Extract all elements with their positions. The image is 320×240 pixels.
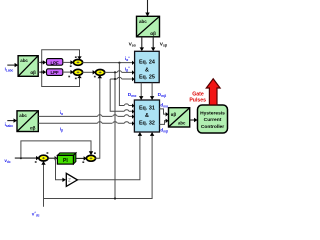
label i_sabc: [5, 122, 14, 128]
wire: E2 bottom in1 from triangle gain, corner at (139.9,179.5): [77, 132, 142, 180]
sum junction S2: [68, 69, 82, 79]
wire: S5 out up to S3 bottom (DC control current): [95, 75, 102, 159]
svg-text:abc: abc: [139, 19, 147, 24]
wire: branch to E1 in3, hop over x=119.4: [110, 77, 134, 81]
label i_salpha: [60, 110, 63, 116]
wire: T2 out2 to LPF2: [38, 70, 46, 74]
label i_Labc: [5, 67, 14, 73]
transform block T5 alphabeta->abc (right): [169, 108, 190, 127]
wire: LPF1 out to sum S1: [63, 60, 74, 64]
svg-text:Hysteresis: Hysteresis: [200, 111, 225, 117]
transform block T2 abc->alphabeta (left upper): [18, 56, 38, 77]
svg-text:Pulses: Pulses: [189, 98, 206, 104]
wire: vertical from wire B down to v*dc line: [114, 72, 116, 198]
feedback box around LPFs (direct path loop): [41, 50, 82, 87]
svg-text:PI: PI: [63, 158, 68, 164]
triangle gain block (1/vdc): [66, 173, 77, 186]
wire: T2 out1 to LPF1: [38, 60, 46, 64]
block E1 Eq.24 & Eq.25: [135, 51, 160, 82]
wire: E1 bottom out1 to E2 top in1 (D_malpha): [139, 83, 143, 100]
label Gate Pulses: [189, 92, 206, 104]
gate pulses red arrow: [206, 79, 220, 105]
svg-text:LPF: LPF: [50, 70, 59, 75]
wire: LPF2 out to sum S2: [63, 70, 74, 74]
label i_beta* (reference current beta): [125, 66, 130, 72]
wire A: S1 out to E1 in1, with junction: [82, 61, 134, 65]
wire: T5 to hysteresis controller: [190, 118, 198, 122]
label i_alpha* (reference current alpha): [125, 56, 130, 62]
label i_sbeta: [60, 127, 63, 133]
wire: E2 out1 to T5 in1 (d_malpha): [160, 109, 169, 117]
label V_sbeta: [160, 41, 167, 47]
hysteresis current controller block: [198, 105, 228, 133]
wire: E2 bottom in2 from v*dc line, corner at (152.1,198.5): [44, 132, 155, 200]
transform block T1 abc->alphabeta (top): [137, 16, 160, 37]
label v_dc: [4, 158, 11, 164]
svg-text:abc: abc: [178, 121, 186, 126]
wire B: S3 out to E1 in2, hop over x=119.4, junction at x=115: [104, 70, 134, 74]
wire: v*dc up into sum S4 bottom: [41, 161, 45, 207]
svg-text:abc: abc: [19, 113, 27, 118]
label v*_dc: [32, 211, 40, 218]
wire: E2 out2 to T5 in2 (d_mbeta): [160, 119, 169, 125]
label V_salpha: [129, 41, 137, 47]
sum junction S1: [70, 56, 83, 67]
label d_mbeta: [160, 128, 168, 134]
wire: input i_sabc to T4: [7, 118, 17, 122]
wire: PI out to sum S5: [76, 156, 87, 160]
wire row3: T4 out1 to E2 in3 with hops: [38, 114, 134, 118]
wire: input to T1 from top: [145, 0, 149, 17]
svg-text:Current: Current: [204, 117, 222, 123]
transform block T4 abc->alphabeta (left lower): [17, 111, 38, 132]
sum junction S3: [94, 70, 105, 78]
svg-text:&: &: [145, 68, 149, 74]
LPF block L2: [47, 69, 63, 76]
sum junction S4: [35, 152, 49, 163]
LPF block L1: [47, 59, 63, 66]
svg-text:Eq. 31: Eq. 31: [139, 105, 155, 111]
wire: vertical x=110.2 down to E2 in2: [110, 79, 134, 114]
wire: T1 out1 to E1 (V_s alpha): [140, 37, 144, 52]
label D_malpha: [128, 92, 137, 98]
svg-text:αβ: αβ: [30, 125, 36, 130]
wire: S4 out to PI with junction for gain tap: [48, 156, 58, 160]
label d_malpha: [160, 102, 168, 108]
wire: E1 bottom out2 to E2 top in2 (D_mbeta): [150, 83, 154, 100]
svg-text:Eq. 25: Eq. 25: [139, 75, 155, 81]
wire: v_dc feedforward up-over to sum S5 top: [21, 141, 93, 158]
PI block (3D): [57, 153, 76, 164]
wire: S2 out to sum S3: [82, 70, 96, 74]
svg-text:Eq. 24: Eq. 24: [139, 60, 155, 66]
label D_mbeta: [158, 92, 167, 98]
wire: input i_Labc to T2: [7, 63, 18, 67]
wire: vertical from wire A down to E2 in1: [119, 63, 134, 108]
svg-text:abc: abc: [20, 58, 28, 63]
svg-text:LPF: LPF: [50, 60, 59, 65]
svg-text:&: &: [145, 113, 149, 119]
svg-text:Eq. 32: Eq. 32: [139, 121, 155, 127]
svg-text:αβ: αβ: [30, 70, 36, 75]
sum junction S5: [82, 152, 95, 163]
svg-text:αβ: αβ: [171, 112, 177, 117]
svg-text:αβ: αβ: [150, 31, 156, 36]
svg-text:Controller: Controller: [201, 124, 224, 130]
wire: v_dc to sum S4 with junction at x=20.9: [15, 156, 40, 160]
block E2 Eq.31 & Eq.32: [134, 100, 159, 132]
wire: gain tap down to triangle: [56, 158, 66, 182]
wire: T1 out2 to E1 (V_s beta): [151, 37, 155, 52]
wire row4: T4 out2 to E2 in4 with hops: [38, 121, 134, 125]
